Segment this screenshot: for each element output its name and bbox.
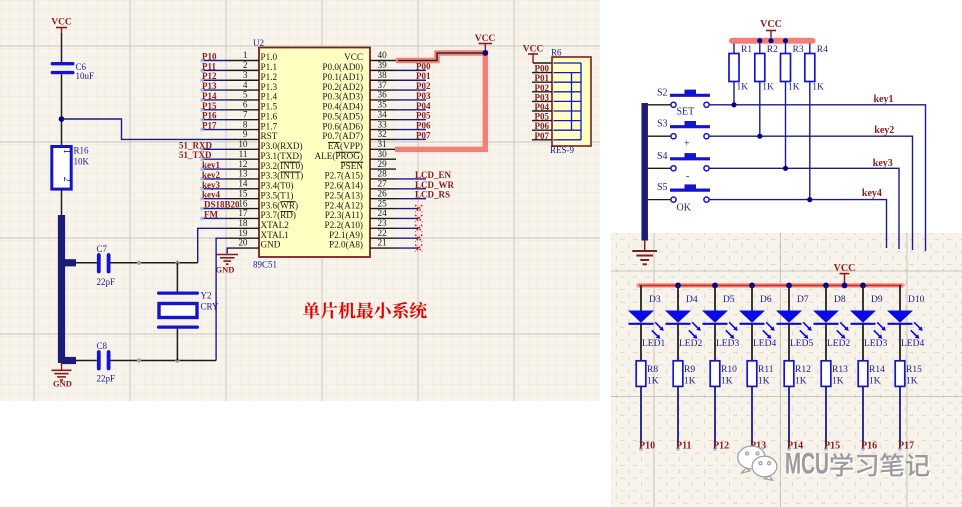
svg-text:P00: P00 bbox=[416, 61, 431, 71]
pin 2 P1.1 bbox=[228, 60, 278, 72]
svg-text:1K: 1K bbox=[647, 377, 659, 387]
svg-text:VCC: VCC bbox=[523, 45, 544, 55]
switch S5 OK bbox=[657, 182, 710, 214]
ground GND (keys) bbox=[632, 240, 657, 264]
wire R16 to bus bbox=[61, 189, 63, 216]
pin 31 EA(VPP) bbox=[328, 139, 396, 151]
svg-text:5: 5 bbox=[243, 90, 248, 100]
svg-text:key2: key2 bbox=[202, 170, 221, 180]
junction grey C8 bbox=[137, 358, 141, 362]
svg-text:10: 10 bbox=[238, 139, 248, 149]
pin 25 P2.4(A12) bbox=[324, 198, 396, 210]
crystal Y2 CRY bbox=[157, 263, 219, 361]
net label P12 bbox=[200, 71, 227, 82]
dangling wire marker bbox=[676, 447, 679, 452]
ground GND (pin 20) bbox=[216, 255, 238, 275]
LED D3 LED1 bbox=[628, 285, 665, 360]
net label P13 bbox=[200, 81, 227, 92]
svg-text:R12: R12 bbox=[795, 365, 811, 375]
svg-text:28: 28 bbox=[378, 169, 388, 179]
wire + net label LCD_WR bbox=[396, 180, 455, 190]
svg-text:25: 25 bbox=[378, 198, 388, 208]
wire key3 net bbox=[709, 168, 899, 249]
wire C8 to XTAL1 node bbox=[111, 360, 217, 362]
pin 4 P1.3 bbox=[228, 80, 278, 92]
svg-text:LED4: LED4 bbox=[753, 339, 776, 349]
svg-text:VCC: VCC bbox=[834, 263, 856, 274]
LED sheet background (dotted grid) bbox=[611, 233, 962, 507]
wire bus to S4 bbox=[648, 167, 671, 169]
LED D8 LED2 bbox=[813, 285, 850, 360]
wire key2 net bbox=[709, 136, 912, 250]
wire VCC net highlight (red) bbox=[395, 53, 485, 149]
svg-text:P2.1(A9): P2.1(A9) bbox=[329, 230, 363, 240]
resistor R14 1K bbox=[858, 361, 885, 387]
svg-text:P02: P02 bbox=[535, 83, 550, 93]
svg-text:51_RXD: 51_RXD bbox=[179, 140, 212, 150]
pin 12 P3.2(INT0) bbox=[228, 159, 304, 171]
title 单片机最小系统 bbox=[303, 302, 427, 319]
watermark text MCU学习笔记 bbox=[785, 448, 931, 483]
resistor R3 1K bbox=[781, 44, 804, 169]
svg-text:P3.5(T1): P3.5(T1) bbox=[261, 190, 294, 200]
wire + net label P06 bbox=[396, 121, 431, 131]
svg-text:13: 13 bbox=[238, 169, 248, 179]
svg-text:P1.1: P1.1 bbox=[261, 62, 278, 72]
svg-text:P2.3(A11): P2.3(A11) bbox=[325, 210, 363, 220]
svg-text:R9: R9 bbox=[684, 365, 695, 375]
svg-text:P03: P03 bbox=[535, 92, 550, 102]
resistor R10 1K bbox=[710, 361, 737, 387]
wire key1 net bbox=[709, 105, 925, 251]
pin 21 P2.0(A8) bbox=[329, 238, 396, 250]
svg-text:P0.2(AD2): P0.2(AD2) bbox=[322, 82, 363, 92]
svg-text:key2: key2 bbox=[874, 125, 894, 136]
svg-text:DS18B20: DS18B20 bbox=[204, 200, 240, 210]
svg-text:key4: key4 bbox=[862, 188, 882, 199]
pin 35 P0.4(AD4) bbox=[322, 100, 396, 112]
svg-text:22: 22 bbox=[378, 228, 388, 238]
wire + net label P04 bbox=[396, 101, 431, 111]
ground GND (bottom left) bbox=[52, 363, 72, 389]
net label 51_RXD bbox=[179, 140, 228, 151]
wire + no-connect X pin 22 bbox=[396, 235, 422, 242]
pin 33 P0.6(AD6) bbox=[322, 119, 396, 131]
wire VCC rail (LEDs) highlight bbox=[639, 283, 903, 288]
wire C8 left bbox=[75, 360, 97, 362]
LED D7 LED5 bbox=[776, 285, 813, 360]
pin 3 P1.2 bbox=[228, 70, 278, 82]
net label key4 bbox=[200, 190, 227, 201]
power VCC (LEDs) bbox=[834, 263, 856, 285]
svg-text:1K: 1K bbox=[758, 377, 770, 387]
svg-text:P04: P04 bbox=[416, 101, 431, 111]
svg-text:P0.1(AD1): P0.1(AD1) bbox=[322, 72, 363, 82]
pin 37 P0.2(AD2) bbox=[322, 80, 396, 92]
junction key2/R2 bbox=[757, 134, 762, 139]
svg-text:P3.4(T0): P3.4(T0) bbox=[261, 181, 294, 191]
svg-text:31: 31 bbox=[378, 139, 388, 149]
svg-text:22pF: 22pF bbox=[97, 374, 116, 384]
svg-text:MCU: MCU bbox=[785, 448, 829, 481]
svg-text:P07: P07 bbox=[416, 130, 431, 140]
junction key1/R1 bbox=[731, 102, 736, 107]
svg-text:GND: GND bbox=[216, 265, 235, 275]
svg-text:R8: R8 bbox=[647, 365, 658, 375]
wire core VCC net bbox=[398, 53, 485, 61]
svg-text:VCC: VCC bbox=[344, 52, 363, 62]
net label DS18B20 bbox=[200, 200, 240, 211]
R6 pin + net label P01 bbox=[532, 73, 552, 83]
wire to P14 bbox=[788, 386, 790, 449]
svg-text:40: 40 bbox=[378, 50, 388, 60]
svg-text:P17: P17 bbox=[898, 441, 914, 452]
svg-text:34: 34 bbox=[378, 109, 388, 119]
svg-text:89C51: 89C51 bbox=[253, 260, 277, 270]
svg-text:GND: GND bbox=[53, 379, 72, 389]
svg-text:C8: C8 bbox=[97, 341, 108, 351]
LED D5 LED3 bbox=[702, 285, 739, 360]
svg-text:1K: 1K bbox=[684, 377, 696, 387]
wire + net label P02 bbox=[396, 81, 431, 91]
svg-text:35: 35 bbox=[378, 100, 388, 110]
svg-text:P2.2(A10): P2.2(A10) bbox=[324, 220, 363, 230]
dangling wire marker bbox=[861, 447, 864, 452]
wire + net label LCD_RS bbox=[396, 190, 450, 200]
svg-text:P2.5(A13): P2.5(A13) bbox=[324, 190, 363, 200]
pin 27 P2.6(A14) bbox=[324, 179, 396, 191]
svg-text:P00: P00 bbox=[535, 64, 550, 74]
svg-text:D10: D10 bbox=[908, 295, 925, 305]
svg-text:51_TXD: 51_TXD bbox=[179, 150, 212, 160]
resistor R11 1K bbox=[747, 361, 774, 387]
wire to P17 bbox=[899, 386, 901, 449]
pin 34 P0.5(AD5) bbox=[322, 109, 396, 121]
pin 8 P1.7 bbox=[228, 119, 278, 131]
R6 pin + net label P02 bbox=[532, 83, 552, 93]
svg-text:7: 7 bbox=[243, 109, 248, 119]
svg-text:P2.4(A12): P2.4(A12) bbox=[324, 200, 363, 210]
switch S4 - bbox=[657, 151, 710, 182]
junction key3/R3 bbox=[783, 166, 788, 171]
svg-text:1K: 1K bbox=[906, 377, 918, 387]
dangling wire marker bbox=[787, 447, 790, 452]
svg-text:LED4: LED4 bbox=[901, 339, 924, 349]
resistor R9 1K bbox=[673, 361, 696, 387]
svg-text:P12: P12 bbox=[713, 441, 729, 452]
wire to P15 bbox=[825, 386, 827, 449]
net label 51_TXD bbox=[179, 150, 228, 161]
pin name overlines bbox=[280, 142, 363, 211]
svg-text:1K: 1K bbox=[869, 377, 881, 387]
net label FM bbox=[200, 209, 227, 220]
pin 17 P3.7(RD) bbox=[228, 208, 296, 220]
svg-text:P11: P11 bbox=[676, 441, 692, 452]
svg-text:+: + bbox=[684, 139, 690, 150]
svg-text:LED5: LED5 bbox=[790, 339, 813, 349]
svg-text:LED3: LED3 bbox=[864, 339, 887, 349]
LED D4 LED2 bbox=[665, 285, 702, 360]
power VCC (top left) bbox=[51, 18, 72, 34]
svg-text:6: 6 bbox=[243, 100, 248, 110]
junction dots LED rail bbox=[675, 283, 866, 289]
svg-text:R15: R15 bbox=[906, 365, 922, 375]
LED D9 LED3 bbox=[850, 285, 887, 360]
resistor R12 1K bbox=[784, 361, 811, 387]
svg-text:P0.3(AD3): P0.3(AD3) bbox=[322, 92, 363, 102]
svg-text:P10: P10 bbox=[202, 52, 217, 62]
resistor R1 1K bbox=[729, 44, 752, 105]
pin 5 P1.4 bbox=[228, 90, 278, 102]
svg-text:D7: D7 bbox=[797, 295, 809, 305]
svg-text:23: 23 bbox=[378, 218, 388, 228]
junction grey C7 bbox=[137, 261, 141, 265]
capacitor C7 22pF bbox=[97, 244, 116, 287]
svg-text:P05: P05 bbox=[416, 111, 431, 121]
resistor R4 1K bbox=[805, 44, 828, 200]
junction key4/R4 bbox=[807, 197, 812, 202]
svg-text:key3: key3 bbox=[202, 180, 221, 190]
pin 6 P1.5 bbox=[228, 100, 278, 112]
svg-text:39: 39 bbox=[378, 60, 388, 70]
capacitor C8 22pF bbox=[97, 341, 116, 384]
svg-text:R6: R6 bbox=[551, 48, 562, 58]
svg-text:P1.0: P1.0 bbox=[261, 52, 278, 62]
svg-text:18: 18 bbox=[238, 218, 248, 228]
pin 40 VCC bbox=[344, 50, 396, 62]
svg-text:LCD_EN: LCD_EN bbox=[415, 170, 452, 180]
svg-text:11: 11 bbox=[239, 149, 248, 159]
pin 39 P0.0(AD0) bbox=[322, 60, 396, 72]
svg-text:38: 38 bbox=[378, 70, 388, 80]
svg-text:1K: 1K bbox=[832, 377, 844, 387]
wire to P11 bbox=[677, 386, 679, 449]
dangling wire marker bbox=[639, 447, 642, 452]
pin 1 P1.0 bbox=[228, 50, 278, 62]
svg-text:D3: D3 bbox=[649, 295, 661, 305]
wire VCC to R6 pin1 bbox=[533, 62, 552, 64]
svg-text:key4: key4 bbox=[202, 190, 221, 200]
switch S2 SET bbox=[657, 87, 710, 117]
wire to P10 bbox=[640, 386, 642, 449]
wire VCC rail (LEDs) core bbox=[639, 284, 902, 286]
svg-text:R11: R11 bbox=[758, 365, 774, 375]
svg-text:FM: FM bbox=[204, 209, 218, 219]
svg-text:P1.6: P1.6 bbox=[261, 111, 278, 121]
pin 28 P2.7(A15) bbox=[324, 169, 396, 181]
svg-text:P1.5: P1.5 bbox=[261, 102, 278, 112]
svg-text:14: 14 bbox=[238, 179, 248, 189]
svg-text:32: 32 bbox=[378, 129, 388, 139]
svg-text:P0.7(AD7): P0.7(AD7) bbox=[322, 131, 363, 141]
R6 pin + net label P03 bbox=[532, 92, 552, 102]
svg-text:LED2: LED2 bbox=[679, 339, 702, 349]
svg-text:P16: P16 bbox=[861, 441, 877, 452]
svg-text:S4: S4 bbox=[657, 151, 668, 162]
resistor R16 10K bbox=[52, 146, 90, 190]
svg-text:30: 30 bbox=[378, 149, 388, 159]
svg-text:8: 8 bbox=[243, 119, 248, 129]
dangling wire marker bbox=[898, 447, 901, 452]
wire + net label P07 bbox=[396, 130, 431, 140]
svg-text:D9: D9 bbox=[871, 295, 883, 305]
svg-text:OK: OK bbox=[677, 203, 692, 214]
pin 7 P1.6 bbox=[228, 109, 278, 121]
power VCC (R6) bbox=[523, 45, 544, 64]
svg-text:3: 3 bbox=[243, 70, 248, 80]
svg-text:1: 1 bbox=[61, 149, 72, 154]
svg-text:P16: P16 bbox=[202, 111, 217, 121]
svg-text:P15: P15 bbox=[202, 101, 217, 111]
svg-text:LED3: LED3 bbox=[716, 339, 739, 349]
dangling wire marker bbox=[750, 447, 753, 452]
svg-text:R13: R13 bbox=[832, 365, 848, 375]
svg-text:26: 26 bbox=[378, 188, 388, 198]
svg-text:S3: S3 bbox=[657, 119, 668, 130]
wire to P12 bbox=[714, 386, 716, 449]
svg-text:1: 1 bbox=[243, 50, 248, 60]
svg-text:LCD_RS: LCD_RS bbox=[415, 190, 450, 200]
svg-text:12: 12 bbox=[238, 159, 248, 169]
svg-text:27: 27 bbox=[378, 179, 388, 189]
wire + net label LCD_EN bbox=[396, 170, 452, 180]
net label P17 bbox=[200, 121, 227, 132]
svg-text:37: 37 bbox=[378, 80, 388, 90]
svg-text:P07: P07 bbox=[535, 131, 550, 141]
svg-text:P12: P12 bbox=[202, 71, 217, 81]
svg-text:4: 4 bbox=[243, 80, 248, 90]
wire to P13 bbox=[751, 386, 753, 449]
thick bus wire (keys common) bbox=[641, 103, 648, 241]
svg-text:P3.1(TXD): P3.1(TXD) bbox=[261, 151, 303, 161]
wire bus to S5 bbox=[648, 199, 671, 201]
svg-text:P2.7(A15): P2.7(A15) bbox=[324, 171, 363, 181]
svg-text:16: 16 bbox=[238, 198, 248, 208]
svg-text:P1.7: P1.7 bbox=[261, 121, 278, 131]
svg-text:LED2: LED2 bbox=[827, 339, 850, 349]
svg-text:P0.0(AD0): P0.0(AD0) bbox=[322, 62, 363, 72]
pin 14 P3.4(T0) bbox=[228, 179, 294, 191]
svg-text:1K: 1K bbox=[788, 83, 800, 93]
svg-text:P17: P17 bbox=[202, 121, 217, 131]
svg-text:P03: P03 bbox=[416, 91, 431, 101]
R6 pin + net label P07 bbox=[532, 131, 552, 141]
svg-text:22pF: 22pF bbox=[97, 277, 116, 287]
pin 15 P3.5(T1) bbox=[228, 188, 294, 200]
svg-text:key1: key1 bbox=[202, 160, 221, 170]
pin 11 P3.1(TXD) bbox=[228, 149, 303, 161]
svg-text:1K: 1K bbox=[812, 83, 824, 93]
wire VCC to C6 bbox=[61, 33, 63, 62]
svg-text:1K: 1K bbox=[795, 377, 807, 387]
wire pin19 XTAL1 to crystal bbox=[216, 238, 227, 360]
svg-text:VCC: VCC bbox=[51, 18, 72, 28]
net label P10 bbox=[200, 52, 227, 63]
svg-text:29: 29 bbox=[378, 159, 388, 169]
svg-text:20: 20 bbox=[238, 238, 248, 248]
R6 pin + net label P04 bbox=[532, 102, 552, 112]
svg-text:24: 24 bbox=[378, 208, 388, 218]
svg-text:R1: R1 bbox=[741, 45, 752, 55]
wire key4 net bbox=[709, 200, 886, 248]
junction dots VCC rail bbox=[757, 38, 788, 43]
wire + net label P01 bbox=[396, 71, 431, 81]
svg-text:R3: R3 bbox=[793, 45, 804, 55]
svg-text:P04: P04 bbox=[535, 102, 550, 112]
svg-text:VCC: VCC bbox=[475, 34, 496, 44]
wire C6 to node bbox=[61, 74, 63, 146]
wire C7 left bbox=[75, 262, 97, 264]
svg-text:P1.3: P1.3 bbox=[261, 82, 278, 92]
power VCC (keys) bbox=[760, 19, 782, 38]
pin 23 P2.2(A10) bbox=[324, 218, 396, 230]
svg-text:P2.0(A8): P2.0(A8) bbox=[329, 240, 363, 250]
svg-text:2: 2 bbox=[243, 60, 248, 70]
svg-text:17: 17 bbox=[238, 208, 248, 218]
svg-text:S5: S5 bbox=[657, 182, 668, 193]
svg-text:D8: D8 bbox=[834, 295, 846, 305]
svg-text:33: 33 bbox=[378, 119, 388, 129]
R6 pin + net label P05 bbox=[532, 112, 552, 122]
svg-text:P01: P01 bbox=[416, 71, 431, 81]
svg-text:1K: 1K bbox=[721, 377, 733, 387]
wire + net label P00 bbox=[396, 61, 431, 71]
LED sheet major grid lines bbox=[611, 233, 962, 507]
svg-text:P0.5(AD5): P0.5(AD5) bbox=[322, 111, 363, 121]
wire bus to S2 bbox=[648, 104, 671, 106]
switch S3 + bbox=[657, 119, 710, 150]
resistor R13 1K bbox=[821, 361, 848, 387]
svg-text:1K: 1K bbox=[762, 83, 774, 93]
net label P14 bbox=[200, 91, 227, 102]
svg-text:D5: D5 bbox=[723, 295, 735, 305]
wire + net label P05 bbox=[396, 111, 431, 121]
wire pin20 to GND bbox=[226, 248, 228, 253]
op IC U2 89C51 body bbox=[253, 38, 370, 270]
svg-text:key1: key1 bbox=[874, 94, 894, 105]
net label key3 bbox=[200, 180, 227, 191]
junction crystal top bbox=[175, 261, 179, 265]
svg-text:P06: P06 bbox=[535, 121, 550, 131]
svg-text:U2: U2 bbox=[253, 38, 264, 48]
pin 30 ALE(PROG) bbox=[315, 149, 397, 161]
wire + no-connect X pin 21 bbox=[396, 245, 422, 252]
svg-text:21: 21 bbox=[378, 238, 388, 248]
svg-text:36: 36 bbox=[378, 90, 388, 100]
thick ground bus wire bbox=[62, 215, 77, 363]
svg-text:15: 15 bbox=[238, 188, 248, 198]
wire + no-connect X pin 25 bbox=[396, 205, 422, 212]
svg-text:10uF: 10uF bbox=[76, 71, 95, 81]
svg-text:S2: S2 bbox=[657, 87, 668, 98]
pin 10 P3.0(RXD) bbox=[228, 139, 303, 151]
dangling wire marker bbox=[713, 447, 716, 452]
pin 38 P0.1(AD1) bbox=[322, 70, 396, 82]
svg-text:LCD_WR: LCD_WR bbox=[415, 180, 455, 190]
wire pin18 XTAL2 to crystal bbox=[198, 228, 228, 263]
pin 24 P2.3(A11) bbox=[325, 208, 396, 220]
power VCC (right of IC) bbox=[475, 34, 496, 53]
svg-text:P13: P13 bbox=[202, 81, 217, 91]
pin 20 GND bbox=[228, 238, 281, 250]
pin 19 XTAL1 bbox=[228, 228, 290, 240]
svg-text:R10: R10 bbox=[721, 365, 737, 375]
svg-text:GND: GND bbox=[261, 240, 281, 250]
wire VCC rail highlight (keys) bbox=[732, 38, 813, 44]
resistor R2 1K bbox=[755, 44, 778, 137]
net label P15 bbox=[200, 101, 227, 112]
net label P16 bbox=[200, 111, 227, 122]
